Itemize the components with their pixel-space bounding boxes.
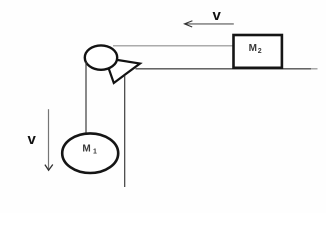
velocity arrow (top, pointing left) (184, 21, 234, 27)
rope (left, pulley down to M1) (85, 62, 87, 134)
ground line under M2 (136, 68, 312, 70)
pulley wheel (85, 45, 117, 69)
mass M1 (hanging ellipse) (62, 133, 118, 173)
pulley bracket (triangle) (105, 58, 140, 83)
svg-text:v: v (28, 131, 37, 148)
rope (pulley to M2) (113, 45, 233, 47)
rope (right, pulley down past M1) (124, 76, 126, 187)
svg-text:v: v (213, 7, 222, 24)
velocity arrow (left, pointing down) (45, 109, 53, 170)
mass M2 (block on surface) (234, 35, 282, 68)
